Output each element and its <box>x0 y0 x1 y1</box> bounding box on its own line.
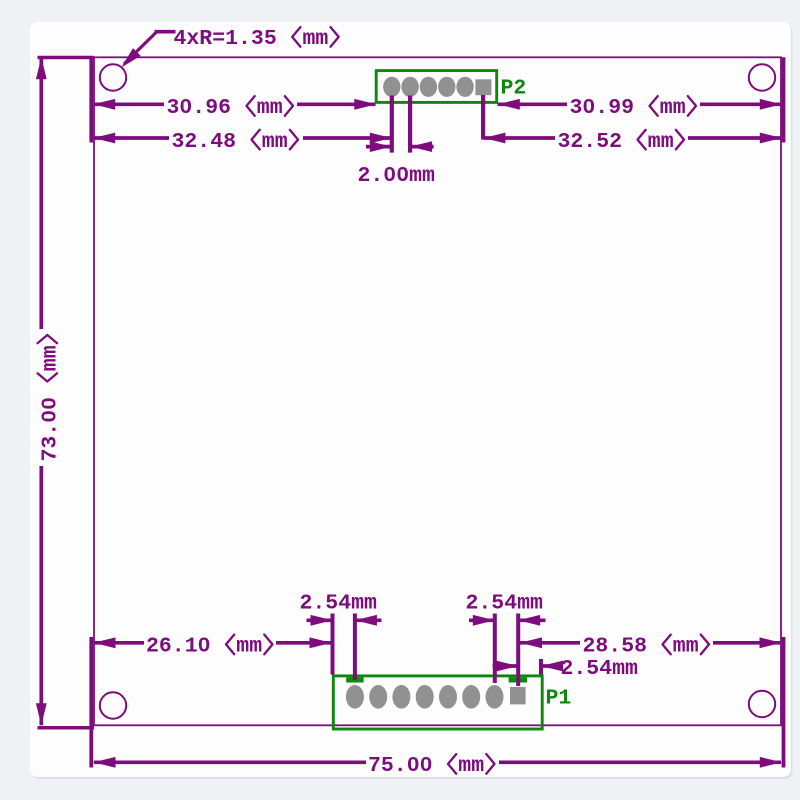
extension line P2 square pin <box>481 95 485 140</box>
svg-text:mm: mm <box>38 345 62 371</box>
dim 73.00mm label (rotated) <box>38 335 63 462</box>
P2 pin 3 pad <box>420 77 437 97</box>
extension line right board edge (bottom dims) <box>782 637 786 768</box>
P1 pin 5 pad <box>439 685 457 709</box>
svg-text:26.10: 26.10 <box>146 635 211 659</box>
extension line P1 pin1 <box>353 614 357 681</box>
extension line P1 box right edge <box>539 659 543 675</box>
P1 pin 8 square pad <box>510 687 526 704</box>
dim 32.48mm dimension line <box>94 136 169 140</box>
dim 73.00mm dimension line lower segment <box>39 466 43 725</box>
svg-text:mm: mm <box>262 130 288 154</box>
dim 32.52mm dimension line <box>483 136 555 140</box>
P2 pin 5 pad <box>456 77 473 97</box>
svg-text:mm: mm <box>458 754 484 778</box>
P1 pin 3 pad <box>392 685 410 709</box>
extension line P1 square pin <box>516 614 520 687</box>
svg-text:2.54mm: 2.54mm <box>466 591 544 615</box>
svg-text:2.54mm: 2.54mm <box>300 591 378 615</box>
dim 2.00mm arrows <box>366 145 392 149</box>
PCB board outline <box>94 57 781 725</box>
svg-text:73.00: 73.00 <box>38 397 62 462</box>
P1 pin 2 pad <box>369 685 387 709</box>
extension line right board edge (top dims) <box>782 57 786 142</box>
svg-text:32.52: 32.52 <box>558 130 623 154</box>
mounting hole bottom-right R=1.35mm <box>749 691 775 717</box>
P2 pin 6 square pad <box>475 79 491 95</box>
dim 73.00mm extension line bottom <box>38 726 95 730</box>
dim 30.96mm dimension line <box>94 102 164 106</box>
svg-text:30.99: 30.99 <box>570 96 635 120</box>
dim 73.00mm arrow down <box>36 703 47 725</box>
P1 pin 4 pad <box>416 685 434 709</box>
P2 pin 4 pad <box>438 77 455 97</box>
P1 pin 8 pad tick <box>509 677 527 682</box>
P1 pin 6 pad <box>462 685 480 709</box>
P1 pin 7 pad <box>486 685 504 709</box>
svg-text:75.00: 75.00 <box>368 754 433 778</box>
svg-text:32.48: 32.48 <box>172 130 237 154</box>
connector P1 outline <box>333 676 542 729</box>
svg-text:30.96: 30.96 <box>167 96 232 120</box>
dim 73.00mm extension line top <box>38 56 95 60</box>
extension line left board edge (top dims) <box>89 57 93 142</box>
dim 73.00mm arrow up <box>36 57 47 79</box>
P1 pin 1 pad <box>346 685 364 709</box>
svg-text:2.00mm: 2.00mm <box>358 164 436 188</box>
svg-text:mm: mm <box>303 27 329 51</box>
dim 73.00mm dimension line upper segment <box>39 57 43 329</box>
dim 2.54mm (P1 right) arrows <box>493 664 519 668</box>
svg-text:mm: mm <box>257 96 283 120</box>
svg-text:mm: mm <box>648 130 674 154</box>
dim 2.54mm (P1 left) arrows <box>307 618 333 622</box>
svg-text:28.58: 28.58 <box>583 635 648 659</box>
leader line for hole radius note <box>155 30 176 34</box>
extension line P2 pin2 <box>408 96 412 153</box>
svg-text:2.54mm: 2.54mm <box>561 657 639 681</box>
svg-text:4xR=1.35: 4xR=1.35 <box>174 27 277 51</box>
svg-text:P2: P2 <box>501 77 527 101</box>
dim 75.00mm dimension line <box>94 760 366 764</box>
svg-text:P1: P1 <box>546 687 572 711</box>
dim 2.54mm (P1 pin7-8) arrows <box>469 618 495 622</box>
extension line left board edge (bottom dims) <box>89 637 93 768</box>
dim 28.58mm dimension line <box>520 641 581 645</box>
P2 pin 1 pad <box>383 77 400 97</box>
P2 pin 2 pad <box>401 77 418 97</box>
extension line P1 box left edge <box>331 614 335 675</box>
svg-text:mm: mm <box>673 635 699 659</box>
mounting hole top-right R=1.35mm <box>749 64 775 90</box>
connector P2 outline <box>376 71 497 103</box>
extension line P1 pin7 <box>493 614 497 684</box>
dim 26.10mm dimension line <box>94 641 144 645</box>
extension line P2 pin1 <box>390 96 394 153</box>
mounting hole bottom-left R=1.35mm <box>100 692 126 718</box>
dim 30.99mm dimension line <box>498 102 568 106</box>
mounting hole top-left R=1.35mm <box>100 64 126 90</box>
P1 pin 1 pad tick <box>346 677 363 682</box>
svg-text:mm: mm <box>660 96 686 120</box>
svg-text:mm: mm <box>236 635 262 659</box>
